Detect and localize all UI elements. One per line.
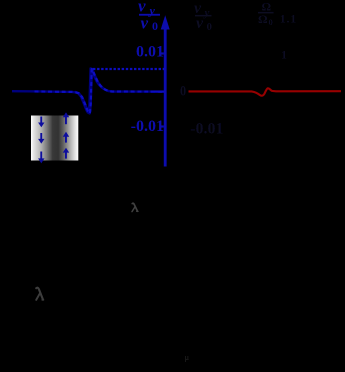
svg-text:Ω: Ω <box>258 12 268 26</box>
tick -0.01 <box>160 125 164 127</box>
svg-text:μ: μ <box>185 353 189 362</box>
red curve <box>189 88 342 95</box>
lambda small <box>132 203 138 211</box>
up arrow 3 <box>63 148 69 159</box>
svg-text:y: y <box>203 7 210 19</box>
svg-text:0.01: 0.01 <box>136 44 164 61</box>
blue y-axis <box>164 27 167 167</box>
svg-text:1: 1 <box>281 47 287 61</box>
label vy/v0 fraction <box>138 0 160 33</box>
svg-text:0: 0 <box>180 82 186 98</box>
gray shear sheet box <box>31 116 78 161</box>
tick 0.01 <box>160 52 164 54</box>
bright dashed overlay curve <box>35 69 165 114</box>
hidden plot: title omega/omega0 1.1 <box>258 0 297 27</box>
svg-text:v: v <box>196 15 204 32</box>
down arrow 2 <box>38 133 44 144</box>
down arrow 1 <box>38 117 44 128</box>
dashed asymptote line <box>93 68 165 70</box>
svg-text:0: 0 <box>269 17 273 27</box>
svg-text:-0.01: -0.01 <box>190 120 223 137</box>
up arrow 2 <box>63 132 69 143</box>
bright solid segment near axis <box>151 90 165 92</box>
svg-text:1.1: 1.1 <box>280 11 297 25</box>
wiggle doubled stroke (offset dashed companion) <box>75 68 108 113</box>
down arrow 3 <box>38 152 44 164</box>
hidden plot: vy/v0 fraction (dark) <box>194 0 213 33</box>
svg-text:v: v <box>141 14 149 33</box>
solid dark-navy curve <box>12 69 165 114</box>
lambda large <box>36 288 43 300</box>
svg-text:-0.01: -0.01 <box>131 118 164 135</box>
up arrow 1 <box>63 112 69 124</box>
svg-text:0: 0 <box>207 21 213 33</box>
svg-text:0: 0 <box>152 19 158 33</box>
